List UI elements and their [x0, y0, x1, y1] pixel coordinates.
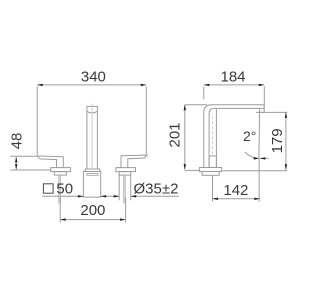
left handle stem	[58, 175, 60, 203]
dimension 142 line	[213, 198, 260, 200]
arrowhead 340 right	[141, 84, 147, 86]
angle 2 degree leader right	[260, 157, 268, 159]
spout base inner detail	[87, 174, 98, 176]
bottom dimension line segment middle	[101, 195, 120, 197]
spout side view outer profile	[204, 105, 264, 168]
dimension 340 extension line left	[36, 87, 38, 156]
arrowhead 179 up	[285, 112, 287, 118]
dimension 340 line	[37, 84, 146, 86]
arrowhead 201 up	[184, 105, 186, 111]
arrowhead 179 down	[285, 164, 287, 170]
left lever handle	[37, 156, 63, 168]
dimension 48 line	[15, 157, 17, 169]
arrowhead 340 left	[37, 84, 43, 86]
arrowhead square50 right pointing left	[101, 195, 107, 197]
dimension 200 extension line right	[125, 198, 127, 223]
diameter 35 extension line left	[118, 175, 120, 200]
bottom dimension line segment left	[42, 195, 83, 197]
spout outlet face line	[258, 109, 261, 159]
arrowhead 200 right	[120, 218, 126, 220]
deck line left of spout base	[185, 169, 200, 171]
arrowhead angle arc pointing right at face	[254, 157, 259, 160]
spout top arc	[87, 111, 98, 113]
arrowhead 48 up	[15, 157, 17, 163]
outlet face extension below	[258, 159, 260, 202]
svg-text:184: 184	[220, 69, 245, 86]
side view cap	[199, 168, 221, 172]
dimension 179 line	[285, 112, 287, 169]
svg-text:200: 200	[80, 202, 105, 219]
spout cap front view	[85, 169, 99, 172]
arrowhead diameter35 right pointing left	[131, 195, 137, 197]
label square symbol for 50	[43, 184, 53, 193]
spout centerline	[91, 104, 93, 169]
arrowhead diameter35 left pointing right	[114, 195, 120, 197]
arrowhead 184 right	[259, 84, 265, 86]
svg-text:142: 142	[223, 182, 248, 199]
spout column front view	[87, 106, 98, 169]
arrowhead 142 left	[213, 198, 219, 200]
right lever handle	[121, 155, 147, 168]
spout column front edge side view	[215, 109, 217, 168]
right handle lower body	[119, 172, 131, 176]
spout side view inner back line	[209, 108, 264, 167]
right handle cap	[116, 168, 136, 172]
dimension 179 extension line top	[256, 111, 287, 113]
dimension 184 extension line right	[263, 87, 265, 108]
spout column center dashed line	[212, 117, 214, 156]
dimension 201 line	[184, 105, 186, 170]
left handle cap	[51, 168, 71, 172]
arrowhead 201 down	[184, 164, 186, 170]
svg-text:179: 179	[269, 128, 286, 153]
dimension 184 extension line left	[203, 87, 205, 100]
deck line right of spout base / 179 bottom extension	[222, 170, 288, 172]
arrowhead angle leader pointing left at face	[260, 157, 266, 159]
dimension 340 extension line right	[145, 87, 147, 155]
arrowhead 184 left	[204, 84, 210, 86]
svg-text:Ø35±2: Ø35±2	[134, 181, 179, 198]
arrowhead 200 left	[60, 218, 65, 220]
side view lower body	[202, 172, 219, 176]
bottom dimension line segment right	[131, 195, 179, 197]
dimension 200 line	[60, 219, 125, 221]
dimension 200 extension line left	[59, 198, 61, 223]
dimension 48 extension line bottom	[10, 169, 51, 171]
spout base front view	[83, 172, 100, 198]
side view stem	[212, 175, 214, 201]
arrowhead square50 left pointing right	[78, 195, 84, 197]
arrowhead 142 right	[254, 198, 259, 200]
dimension 184 line	[204, 84, 264, 86]
svg-text:2°: 2°	[243, 128, 256, 144]
spout shank joint	[209, 156, 216, 168]
diameter 35 extension line right	[130, 175, 132, 200]
svg-text:50: 50	[56, 181, 73, 198]
arrowhead 48 down	[15, 164, 17, 170]
left handle lower body	[54, 172, 66, 176]
svg-text:201: 201	[167, 122, 184, 147]
dimension 48 extension line top	[10, 155, 38, 157]
svg-text:340: 340	[81, 69, 106, 86]
svg-text:48: 48	[9, 133, 26, 150]
dimension 201 extension line top	[185, 104, 207, 106]
spout head step bottom	[260, 111, 265, 113]
angle 2 degree arc left	[245, 152, 259, 158]
right handle stem	[123, 175, 125, 203]
